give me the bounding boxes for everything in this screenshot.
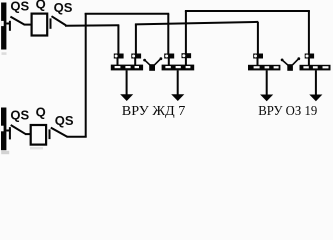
bus bar (VRU OZ 19, left section) [248, 65, 280, 71]
wire (stub from lower busbar) [6, 130, 11, 132]
disconnect QS3 hinge tick [9, 127, 11, 139]
wire V7 (bracket B right leg to fuse F6) [308, 11, 310, 55]
wire (blade to breaker Q1) [24, 24, 32, 26]
section switch (VRU ZhD 7 bus tie) [143, 57, 162, 70]
feeder arrow (VRU ZhD 7 left outgoing) [120, 70, 133, 101]
wire H4 (bracket B top rail) [185, 10, 310, 12]
wire H2 (bracket A top rail) [85, 13, 170, 15]
disconnect QS4 hinge tick [49, 129, 51, 139]
svg-text:QS: QS [55, 113, 74, 128]
svg-text:QS: QS [54, 0, 73, 15]
fuse F5 [253, 54, 263, 59]
disconnect QS4 blade [51, 128, 68, 137]
wire V4 (bracket A right leg to fuse F3) [167, 14, 169, 55]
section switch (VRU OZ 19 bus tie) [281, 57, 300, 70]
wire (fuse F1 to bar) [117, 58, 119, 66]
breaker Q1 box [32, 14, 48, 36]
svg-text:Q: Q [36, 104, 46, 119]
wire H3 (tie rail between sections) [135, 22, 258, 25]
breaker Q2 box [31, 125, 46, 145]
fuse F2 [131, 54, 141, 59]
wire V3 (drop to fuse F2) [135, 24, 137, 54]
wire (fuse F6 to bar) [308, 58, 310, 66]
disconnect QS1 hinge tick [9, 21, 11, 31]
wire (fuse F4 to bar) [185, 58, 187, 66]
disconnect QS2 hinge tick [50, 18, 52, 28]
fuse F4 [182, 53, 192, 58]
busbar (upper supply section) [1, 3, 6, 50]
feeder arrow (VRU OZ 19 right outgoing) [309, 70, 322, 101]
fuse F6 [305, 54, 314, 59]
wire V5 (bracket B left leg to fuse F4) [185, 11, 187, 54]
feeder arrow (VRU ZhD 7 right outgoing) [171, 70, 184, 101]
scan smudge under upper busbar [2, 52, 7, 55]
bus bar (VRU OZ 19, right section) [300, 65, 331, 71]
disconnect QS1 blade [10, 17, 24, 25]
wire (fuse F2 to bar) [134, 58, 136, 66]
svg-text:QS: QS [10, 108, 29, 123]
feeder arrow (VRU OZ 19 left outgoing) [260, 70, 273, 101]
bus bar (VRU ZhD 7, right section) [162, 65, 195, 71]
fuse F3 [164, 54, 174, 59]
bus bar (VRU ZhD 7, left section) [111, 65, 143, 71]
wire H1 (feed 1 to drop) [65, 24, 119, 26]
wire (feed 2 horizontal run) [67, 136, 87, 138]
svg-text:Q: Q [36, 0, 46, 11]
fuse F1 [114, 54, 124, 59]
svg-text:ВРУ ОЗ 19: ВРУ ОЗ 19 [258, 103, 317, 118]
busbar (lower supply section) [1, 108, 6, 151]
wire V1 (feed 2 riser) [85, 13, 87, 138]
wire (blade to breaker Q2) [25, 133, 31, 135]
wire (fuse F5 to bar) [257, 58, 259, 66]
disconnect QS2 blade [52, 16, 67, 25]
disconnect QS3 blade [11, 125, 26, 134]
wire V2 (drop to fuse F1) [117, 25, 119, 54]
wire (stub from upper busbar) [6, 23, 10, 25]
svg-text:ВРУ ЖД 7: ВРУ ЖД 7 [122, 103, 186, 118]
scan smudge under lower busbar [1, 151, 9, 154]
wire V6 (tie rail drop to fuse F5) [257, 22, 259, 55]
scan smudge under breaker Q2 [30, 147, 43, 149]
svg-text:QS: QS [10, 0, 29, 14]
wire (fuse F3 to bar) [168, 58, 170, 66]
